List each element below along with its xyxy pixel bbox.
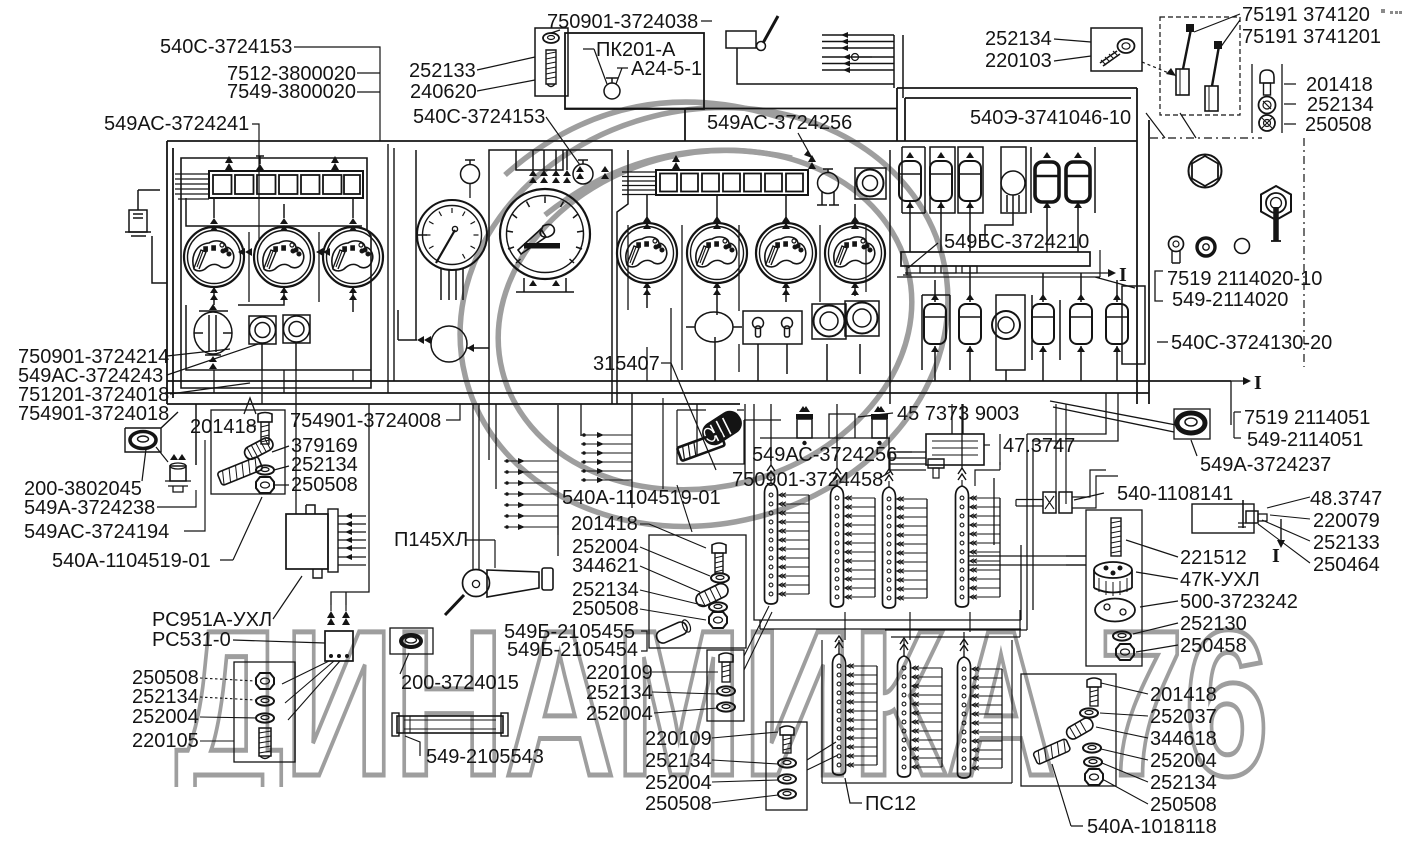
leader 540C-3724153 top to panel xyxy=(294,47,380,73)
bolt 201418 icon xyxy=(1260,70,1274,83)
comb A xyxy=(557,405,559,535)
connector 540-1108141 xyxy=(1043,492,1056,513)
connector strip U4 xyxy=(956,468,1001,607)
svg-text:549БС-3724210: 549БС-3724210 xyxy=(944,231,1089,253)
relay RS531 xyxy=(325,631,353,661)
wire panel top edge xyxy=(167,140,1137,142)
strip frame lower xyxy=(822,640,1012,783)
watermark swirl logo xyxy=(415,57,993,578)
wire bottom row drops xyxy=(935,346,1117,381)
leader 540A-1018118 xyxy=(1052,764,1083,826)
washer 252004 b xyxy=(778,774,796,783)
buzzer xyxy=(855,168,886,199)
junction arrows speedo xyxy=(529,170,571,286)
gauge G6 xyxy=(756,223,816,283)
fuse circle F1 xyxy=(1001,147,1026,213)
leaders from RS531 to stack xyxy=(282,661,340,720)
plate 549AC xyxy=(677,432,725,461)
washer 250508 b xyxy=(778,789,796,798)
leader 549AC-3724241 xyxy=(252,124,259,240)
leader 549BC label xyxy=(908,243,938,268)
leader A24 xyxy=(616,68,628,84)
wire relay frames right xyxy=(1031,147,1095,213)
lamp socket 315407 xyxy=(698,406,746,449)
svg-text:220079: 220079 xyxy=(1313,510,1380,532)
washer 252134 b xyxy=(778,758,796,767)
bolt on 47.3747 xyxy=(928,459,944,468)
valve fitting xyxy=(1242,500,1244,528)
valve 48.3747 box xyxy=(1192,504,1254,533)
leader 7512/7549 bracket xyxy=(357,73,380,141)
wire below right gauges xyxy=(647,282,855,315)
hw column rails xyxy=(1252,64,1282,133)
wire 47.3747 up xyxy=(952,404,963,434)
bushing 549B xyxy=(655,619,693,645)
lamp block K2 frame xyxy=(656,170,808,195)
connector strip L1 xyxy=(833,636,878,775)
gauge G3 xyxy=(323,227,383,287)
junction circle mid bus xyxy=(431,326,467,362)
bar 549-2105543 xyxy=(397,716,503,733)
svg-text:344618: 344618 xyxy=(1150,728,1217,750)
wire bundle into relay xyxy=(890,452,926,472)
washer 252134 br xyxy=(1084,757,1102,766)
leader 549AC-3724194 xyxy=(184,440,205,531)
lamp block K1 windows xyxy=(213,175,360,194)
svg-text:250508: 250508 xyxy=(291,474,358,496)
svg-text:252134: 252134 xyxy=(1307,94,1374,116)
svg-text:250464: 250464 xyxy=(1313,554,1380,576)
wire bus line C xyxy=(167,403,740,405)
svg-text:252134: 252134 xyxy=(291,454,358,476)
bus arrow right xyxy=(1231,380,1243,382)
svg-text:750901-3724458: 750901-3724458 xyxy=(732,469,883,491)
bolt stack box xyxy=(234,662,295,762)
svg-text:252134: 252134 xyxy=(1150,772,1217,794)
leader 201418 box xyxy=(247,425,256,427)
wire top extension box xyxy=(565,33,704,109)
wire sender drop xyxy=(152,236,167,283)
svg-text:252133: 252133 xyxy=(1313,532,1380,554)
leader 754901-3724008 xyxy=(446,404,460,420)
svg-text:201418: 201418 xyxy=(190,416,257,438)
arrow down I xyxy=(1280,519,1282,540)
brush 1 xyxy=(1183,29,1191,69)
svg-text:75191 3741201: 75191 3741201 xyxy=(1242,26,1381,48)
wire oval mount xyxy=(199,310,228,312)
connector circle A24 xyxy=(604,83,620,99)
relay R5 dark xyxy=(1066,162,1090,202)
wires down from bus xyxy=(697,404,754,478)
svg-text:500-3723242: 500-3723242 xyxy=(1180,591,1298,613)
plate hatched xyxy=(217,456,263,485)
svg-text:252134: 252134 xyxy=(645,750,712,772)
dash 540C-3724130-20 xyxy=(1157,341,1168,343)
wire to RS951A xyxy=(295,404,297,514)
pump box xyxy=(1086,510,1142,666)
relay R9 xyxy=(1070,304,1092,344)
socket ring S2 xyxy=(283,315,310,343)
washer 252004 br xyxy=(1083,743,1101,752)
clamp 344618 xyxy=(1064,716,1095,741)
svg-text:252004: 252004 xyxy=(645,772,712,794)
leader 220103 xyxy=(1054,56,1091,61)
nut 250508 stack xyxy=(256,673,274,689)
lamp block K1 frame xyxy=(209,171,363,198)
wire stack C to strip xyxy=(807,742,838,770)
speedometer needle xyxy=(518,229,546,254)
hw stack B box xyxy=(707,650,744,721)
connector strip U1 xyxy=(765,465,810,604)
svg-text:220103: 220103 xyxy=(985,50,1052,72)
stud 221512 xyxy=(1111,518,1121,556)
svg-text:7549-3800020: 7549-3800020 xyxy=(227,81,356,103)
marks after 75191 xyxy=(1381,9,1402,14)
wire gauge frame verticals xyxy=(682,225,820,372)
leader 540E diagonals xyxy=(1146,113,1196,138)
leader 540A-1104519-01 mid xyxy=(662,398,664,489)
svg-text:549АС-3724194: 549АС-3724194 xyxy=(24,521,169,543)
hex plug xyxy=(1189,155,1222,188)
bolt 201418 xyxy=(258,413,272,423)
socket ring S4 xyxy=(845,301,879,336)
leader 750901-3724038 xyxy=(551,21,712,33)
socket ring S3 xyxy=(812,304,846,339)
washer 252134 xyxy=(256,465,274,474)
wire harness hatch to lamp block K1 xyxy=(175,174,209,199)
bar terminals xyxy=(903,266,911,275)
svg-text:549А-3724238: 549А-3724238 xyxy=(24,497,155,519)
connector strip U3 xyxy=(883,469,928,608)
leader 252134 xyxy=(1054,39,1091,42)
washer 252004 stack xyxy=(256,713,274,722)
svg-text:250508: 250508 xyxy=(572,598,639,620)
wire capsule feeds top xyxy=(935,266,1117,302)
svg-text:252134: 252134 xyxy=(132,686,199,708)
comb B xyxy=(631,393,633,483)
leader right col xyxy=(1284,84,1296,124)
bracket 7519 labels xyxy=(1155,271,1163,301)
svg-text:201418: 201418 xyxy=(1306,74,1373,96)
gauge G2 xyxy=(254,227,314,287)
button B3 xyxy=(1235,239,1250,254)
gauge G4 xyxy=(617,223,677,283)
relay R7 xyxy=(959,304,981,344)
washer 252037 xyxy=(1080,708,1098,717)
washer 252004 mid xyxy=(711,573,729,582)
svg-text:549АС-3724256: 549АС-3724256 xyxy=(707,112,852,134)
wire panel left edge xyxy=(166,141,168,404)
wire harness stairs xyxy=(1027,393,1118,441)
leader 200-3724015 xyxy=(400,653,409,674)
clamp 344621 xyxy=(694,581,731,608)
nut 250508 br xyxy=(1085,769,1103,785)
leader 200-3802045 xyxy=(142,449,146,481)
junction arrows right gauges xyxy=(643,216,859,295)
wire frames bottom row xyxy=(922,295,950,370)
leader 315407 xyxy=(661,363,716,470)
wire section divider xyxy=(388,144,394,393)
svg-text:754901-3724018: 754901-3724018 xyxy=(18,403,169,425)
wire section frame xyxy=(617,150,628,404)
washer 252134 a xyxy=(717,686,735,695)
valve 549A-3724238 xyxy=(170,466,186,481)
washer 252130 xyxy=(1113,631,1131,640)
svg-text:252004: 252004 xyxy=(586,703,653,725)
svg-text:549-2114020: 549-2114020 xyxy=(1172,289,1288,311)
junction arrows lamp block K2 xyxy=(576,155,816,179)
breaker 45 7373 b xyxy=(872,419,887,438)
relay R4 dark xyxy=(1035,162,1059,202)
svg-text:ПС12: ПС12 xyxy=(865,793,916,815)
screw 240620 xyxy=(546,50,556,84)
svg-text:540С-3724153: 540С-3724153 xyxy=(413,106,545,128)
svg-text:220109: 220109 xyxy=(645,728,712,750)
box around 315407 part xyxy=(677,410,781,464)
speedometer base xyxy=(516,278,574,292)
svg-text:549-2105543: 549-2105543 xyxy=(426,746,544,768)
relay R2 xyxy=(930,161,952,201)
svg-text:252130: 252130 xyxy=(1180,613,1247,635)
svg-text:47К-УХЛ: 47К-УХЛ xyxy=(1180,569,1260,591)
leaders stack B xyxy=(652,672,718,713)
wire bus line B xyxy=(167,392,1149,394)
leader 540C-3724153 to circle xyxy=(546,117,580,165)
brush box xyxy=(1160,17,1240,115)
wire feeds to comb A xyxy=(489,404,581,489)
pressure gauge stem xyxy=(441,268,463,300)
relay R10 xyxy=(1106,304,1128,344)
svg-text:47.3747: 47.3747 xyxy=(1003,435,1075,457)
svg-text:549-2114051: 549-2114051 xyxy=(1247,429,1363,451)
wire speedo top xyxy=(533,150,567,170)
washer 252134 mid xyxy=(709,602,727,611)
junction arrows relays top xyxy=(906,152,1082,208)
wire fuse link xyxy=(985,195,1013,240)
connector strip L3 xyxy=(958,639,1003,778)
relay box 47.3747 xyxy=(926,434,984,465)
washer 252004 a xyxy=(717,702,735,711)
washer 252134 stack xyxy=(256,696,274,705)
svg-text:549АС-3724241: 549АС-3724241 xyxy=(104,113,249,135)
wire bus line A xyxy=(167,380,1231,382)
dotted leaders stack xyxy=(200,678,256,681)
wire left of pressure gauge xyxy=(416,150,427,340)
gauge G5 xyxy=(687,223,747,283)
svg-text:750901-3724038: 750901-3724038 xyxy=(547,11,698,33)
svg-text:201418: 201418 xyxy=(571,513,638,535)
leader RS531 label xyxy=(233,640,325,643)
wire stalk drop xyxy=(737,48,822,84)
pulley 47K xyxy=(1094,562,1132,578)
zigzag 754901-3724008 xyxy=(244,398,256,414)
clamp 379169 xyxy=(242,436,275,462)
svg-text:549АС-3724256: 549АС-3724256 xyxy=(752,444,897,466)
small circle right of speedo xyxy=(573,164,593,184)
button B2 dark xyxy=(1197,238,1215,256)
indicator oval right xyxy=(695,312,733,342)
hardware box 201418 xyxy=(211,410,285,494)
wire breakers run xyxy=(760,437,890,439)
svg-text:540А-1104519-01: 540А-1104519-01 xyxy=(562,487,721,509)
fuel sender left xyxy=(138,190,160,210)
leader 252133 xyxy=(477,57,535,70)
svg-text:540С-3724153: 540С-3724153 xyxy=(160,36,292,58)
svg-text:250458: 250458 xyxy=(1180,635,1247,657)
toggle switch xyxy=(1261,186,1291,220)
button B1 xyxy=(1169,237,1184,252)
svg-text:РС951А-УХЛ: РС951А-УХЛ xyxy=(152,609,272,631)
relay RS951A xyxy=(286,514,328,569)
dash-dot border right xyxy=(1150,137,1262,139)
svg-text:45 7373 9003: 45 7373 9003 xyxy=(897,403,1019,425)
speedometer xyxy=(500,189,590,279)
leader P145 label xyxy=(466,540,495,568)
strip frame upper xyxy=(754,478,1021,620)
breaker 45 7373 xyxy=(797,419,812,438)
leader 45 7373 xyxy=(858,413,893,417)
stalk switch xyxy=(726,31,756,48)
svg-text:540Э-3741046-10: 540Э-3741046-10 xyxy=(970,107,1131,129)
svg-text:75191 374120: 75191 374120 xyxy=(1242,4,1370,26)
leader 540-1108141 xyxy=(1074,493,1104,500)
wire pump to strips xyxy=(1066,556,1086,565)
wire panel right edge xyxy=(1136,88,1138,404)
junction arrows oval xyxy=(209,304,217,369)
svg-text:48.3747: 48.3747 xyxy=(1310,488,1382,510)
washer 250508 icon xyxy=(1259,115,1275,131)
speedometer bar xyxy=(524,243,560,249)
svg-text:540-1108141: 540-1108141 xyxy=(1117,483,1233,505)
pressure gauge xyxy=(417,200,487,270)
connector strip U2 xyxy=(831,468,876,607)
junction arrows bottom row xyxy=(931,294,1121,352)
wire below gauges xyxy=(213,287,215,305)
wire lamp block to gauges xyxy=(186,198,362,226)
wire to grommet xyxy=(195,404,197,465)
relay R6 xyxy=(924,304,946,344)
svg-text:220105: 220105 xyxy=(132,730,199,752)
svg-text:А24-5-1: А24-5-1 xyxy=(631,58,702,80)
bolt 220105 xyxy=(259,728,271,756)
bolt 201418 mid xyxy=(712,543,726,553)
relay R1 xyxy=(899,161,921,201)
wire right of strips xyxy=(969,556,1086,565)
socket ring S1 xyxy=(249,316,276,344)
washer top xyxy=(543,33,559,43)
svg-text:250508: 250508 xyxy=(1150,794,1217,816)
svg-text:754901-3724008: 754901-3724008 xyxy=(290,410,441,432)
connector bar 549BC xyxy=(901,252,1090,266)
leaders stack A xyxy=(640,524,706,548)
relay R3 xyxy=(959,161,981,201)
svg-text:252133: 252133 xyxy=(409,60,476,82)
leader 549A-3724237 xyxy=(1191,440,1197,456)
leaders 48.3747 group xyxy=(1258,497,1310,563)
leader 240620 xyxy=(477,80,535,91)
leader lines left labels xyxy=(214,370,353,404)
svg-text:220109: 220109 xyxy=(586,662,653,684)
wire comb drops xyxy=(558,483,632,556)
bolt 220109 b xyxy=(780,726,794,735)
leader 549AC lower + 750901 xyxy=(878,452,912,479)
gauge G1 xyxy=(184,227,244,287)
svg-text:252004: 252004 xyxy=(132,706,199,728)
svg-text:540С-3724130-20: 540С-3724130-20 xyxy=(1171,332,1332,354)
bracket 7519-2114051 xyxy=(1234,412,1241,438)
bolt 201418 br xyxy=(1087,678,1101,687)
screw diagonal xyxy=(1118,39,1135,53)
leaders 379169 etc xyxy=(272,446,289,485)
wire section inner frame xyxy=(902,147,925,213)
hw stack A box xyxy=(649,535,746,648)
svg-text:250508: 250508 xyxy=(645,793,712,815)
svg-text:I: I xyxy=(1254,372,1262,394)
leader 549A-3724238 xyxy=(157,490,196,507)
leader 549AC-3724256 top xyxy=(798,133,812,158)
indicator lamp oval xyxy=(194,312,232,354)
wire horn feeds xyxy=(473,404,479,569)
svg-text:201418: 201418 xyxy=(1150,684,1217,706)
svg-text:ДИНАМИКА 76: ДИНАМИКА 76 xyxy=(175,588,1269,820)
svg-text:252037: 252037 xyxy=(1150,706,1217,728)
gauge G7 xyxy=(825,223,885,283)
wire pump drop xyxy=(1056,404,1066,504)
plate hatched br xyxy=(1033,738,1071,765)
wire lamp block K2 to gauges xyxy=(647,195,855,225)
nut 250508 mid xyxy=(709,612,727,628)
wire U1 to stack B xyxy=(744,606,772,670)
spring washer 252134 icon xyxy=(1259,97,1276,114)
keyhole box xyxy=(743,311,802,344)
watermark text xyxy=(175,588,1269,820)
svg-text:200-3724015: 200-3724015 xyxy=(401,672,519,694)
svg-text:I: I xyxy=(1272,545,1280,567)
svg-text:РС531-0: РС531-0 xyxy=(152,629,231,651)
wire drop right xyxy=(1230,381,1232,425)
svg-text:250508: 250508 xyxy=(1305,114,1372,136)
svg-text:252134: 252134 xyxy=(985,28,1052,50)
nut 250458 xyxy=(1116,644,1134,660)
screw box 252133 xyxy=(535,28,568,96)
nut 250508 xyxy=(256,477,274,493)
wire right harness section top xyxy=(897,87,1137,89)
dotted leader to brushes xyxy=(1142,62,1176,76)
leader 540A-1104519-01 left xyxy=(220,497,262,560)
wire harness hatch to lamp block K2 xyxy=(622,172,656,195)
connector strip L2 xyxy=(898,638,943,777)
bolt 220109 a xyxy=(719,653,733,662)
leader PS12 xyxy=(845,778,862,803)
relay R8 xyxy=(1032,304,1054,344)
svg-text:7519 2114051: 7519 2114051 xyxy=(1244,407,1370,429)
leader RS951A label xyxy=(273,576,302,619)
wire speedo section box xyxy=(489,150,612,404)
wire cluster frame verticals xyxy=(249,232,319,302)
svg-text:252134: 252134 xyxy=(586,682,653,704)
wire net to RS531 xyxy=(331,404,369,605)
disc 500-3723242 xyxy=(1095,599,1135,622)
junction arrows on lamp block K1 xyxy=(225,156,339,170)
svg-text:7519 2114020-10: 7519 2114020-10 xyxy=(1167,268,1322,290)
bracket 549B xyxy=(641,631,647,651)
screw box 252134-220103 xyxy=(1091,28,1142,71)
leader 75191 lines xyxy=(1194,14,1240,48)
leader 47.3747 xyxy=(984,444,990,446)
round connector C1 xyxy=(996,295,1025,370)
svg-text:П145ХЛ: П145ХЛ xyxy=(394,529,468,551)
small circle above pressure gauge xyxy=(461,165,480,184)
